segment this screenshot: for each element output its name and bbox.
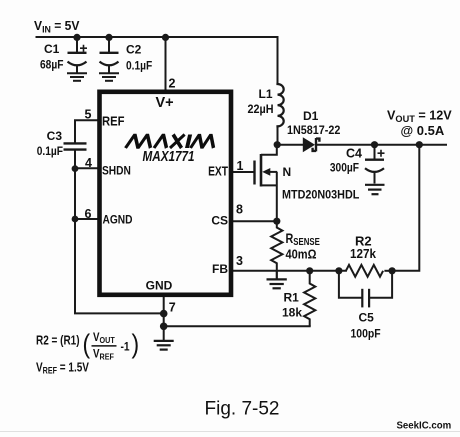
svg-text:MAX1771: MAX1771 bbox=[143, 148, 195, 165]
node GND pin7 lower bbox=[160, 323, 168, 331]
node source/CS/RSENSE bbox=[273, 218, 280, 225]
wire pin2 V+ drop bbox=[165, 37, 167, 92]
wire pin1 EXT gate lead bbox=[233, 171, 255, 173]
svg-text:C1: C1 bbox=[44, 42, 60, 56]
node R2 left/C5 bbox=[335, 267, 342, 274]
drain lead bbox=[261, 143, 277, 155]
wire L1 bottom bbox=[277, 126, 279, 145]
wire C4 stub bbox=[374, 145, 376, 159]
svg-text:D1: D1 bbox=[303, 109, 319, 123]
svg-text:L1: L1 bbox=[258, 87, 272, 101]
svg-text:SHDN: SHDN bbox=[102, 165, 131, 178]
svg-text:): ) bbox=[132, 329, 140, 359]
node GND pin7 upper bbox=[160, 310, 168, 318]
diode D1 (Schottky) bbox=[303, 137, 315, 152]
node AGND bbox=[72, 216, 79, 223]
node SHDN/C3 bbox=[72, 165, 79, 172]
node C2/VIN bbox=[105, 34, 112, 41]
svg-text:40mΩ: 40mΩ bbox=[286, 247, 317, 262]
svg-text:1N5817-22: 1N5817-22 bbox=[287, 125, 340, 138]
svg-text:300µF: 300µF bbox=[330, 162, 359, 175]
resistor R1 bbox=[304, 271, 315, 327]
wire C3 bottom to SHDN node bbox=[74, 150, 76, 169]
capacitor C1 bbox=[68, 45, 88, 73]
wire pin7 GND stub bbox=[163, 297, 165, 340]
svg-text:N: N bbox=[283, 165, 292, 179]
svg-text:V+: V+ bbox=[156, 95, 174, 111]
capacitor C2 bbox=[100, 53, 119, 73]
svg-text:C2: C2 bbox=[126, 43, 142, 57]
channel bar bbox=[260, 154, 263, 187]
svg-text:R2 = (R1): R2 = (R1) bbox=[36, 335, 80, 348]
ground under RSENSE bbox=[267, 271, 287, 289]
scan artifact line bbox=[0, 431, 460, 433]
ground under C4 bbox=[365, 185, 385, 194]
svg-text:127k: 127k bbox=[350, 246, 376, 261]
node pin2/VIN bbox=[162, 34, 169, 41]
node dots bbox=[72, 34, 423, 330]
svg-text:6: 6 bbox=[85, 207, 92, 221]
node C1/VIN bbox=[73, 34, 80, 41]
svg-text:AGND: AGND bbox=[103, 214, 133, 227]
wire L1 top bbox=[277, 37, 279, 84]
svg-text:GND: GND bbox=[146, 279, 173, 293]
wire R2 right to dot bbox=[385, 270, 392, 272]
wire left rail down to GND line bbox=[75, 169, 164, 314]
wire bottom R1 return bbox=[164, 325, 310, 327]
svg-text:CS: CS bbox=[211, 214, 228, 228]
svg-text:C4: C4 bbox=[346, 147, 362, 161]
svg-text:18k: 18k bbox=[282, 306, 302, 320]
wire VOUT down right side bbox=[392, 145, 419, 271]
gate bar bbox=[253, 161, 255, 185]
svg-text:Fig. 7-52: Fig. 7-52 bbox=[205, 399, 280, 420]
svg-text:3: 3 bbox=[236, 254, 243, 268]
svg-text:2: 2 bbox=[169, 77, 176, 91]
svg-text:4: 4 bbox=[85, 156, 92, 170]
wire pin5 REF to C3 bbox=[75, 120, 99, 143]
wire C1 stub bbox=[76, 37, 78, 53]
svg-text:SeekIC.com: SeekIC.com bbox=[397, 420, 452, 431]
svg-text:C5: C5 bbox=[359, 311, 375, 325]
body lead bbox=[269, 171, 277, 173]
inductor L1 bbox=[278, 84, 284, 126]
node C4/VOUT bbox=[371, 141, 378, 148]
formula R2 bbox=[36, 329, 139, 361]
node R2 right/C5 bbox=[389, 267, 396, 274]
source lead bbox=[261, 172, 277, 221]
node L1/D1/drain bbox=[274, 141, 281, 148]
MAXIM logo bbox=[126, 135, 217, 149]
wire FB line pin3 bbox=[233, 270, 346, 272]
ground under C1 bbox=[67, 73, 87, 81]
IC U1 MAX1771 bbox=[100, 92, 232, 295]
ground pin7 bbox=[154, 341, 174, 350]
svg-text:MTD20N03HDL: MTD20N03HDL bbox=[282, 189, 359, 202]
body arrow bbox=[262, 168, 270, 176]
node VOUT right bbox=[416, 141, 423, 148]
svg-text:@ 0.5A: @ 0.5A bbox=[401, 123, 445, 138]
wire CS pin8 bbox=[233, 220, 277, 222]
svg-text:22µH: 22µH bbox=[247, 104, 273, 117]
svg-text:EXT: EXT bbox=[208, 166, 228, 179]
resistor R2 bbox=[346, 265, 383, 277]
capacitor C4 bbox=[365, 150, 385, 184]
svg-text:C3: C3 bbox=[47, 129, 63, 143]
svg-text:REF: REF bbox=[102, 114, 124, 129]
wire diode anode bbox=[278, 144, 304, 146]
svg-text:0.1µF: 0.1µF bbox=[37, 145, 63, 158]
svg-text:5: 5 bbox=[85, 107, 92, 121]
svg-text:100pF: 100pF bbox=[351, 328, 381, 341]
capacitor C3 bbox=[64, 143, 87, 149]
node R1/FB bbox=[306, 267, 313, 274]
svg-text:VIN = 5V: VIN = 5V bbox=[34, 19, 80, 35]
svg-text:(: ( bbox=[83, 329, 91, 359]
resistor RSENSE bbox=[271, 221, 282, 271]
svg-text:68µF: 68µF bbox=[40, 59, 64, 72]
svg-text:8: 8 bbox=[236, 203, 243, 217]
svg-text:-1: -1 bbox=[121, 341, 130, 354]
svg-text:FB: FB bbox=[212, 262, 228, 276]
svg-text:R1: R1 bbox=[284, 291, 300, 305]
transistor Q1 MOSFET bbox=[255, 143, 278, 221]
wire top rail VIN bbox=[37, 36, 278, 38]
wire C2 stub bbox=[108, 37, 110, 53]
wire pin4 SHDN stub bbox=[75, 167, 99, 169]
svg-text:0.1µF: 0.1µF bbox=[126, 60, 152, 73]
wire pin6 AGND stub bbox=[75, 218, 99, 220]
svg-text:7: 7 bbox=[169, 301, 176, 315]
wire diode cathode to VOUT bbox=[317, 144, 447, 146]
svg-text:1: 1 bbox=[237, 159, 244, 173]
ground under C2 bbox=[99, 73, 119, 81]
capacitor C5 bbox=[339, 271, 392, 308]
